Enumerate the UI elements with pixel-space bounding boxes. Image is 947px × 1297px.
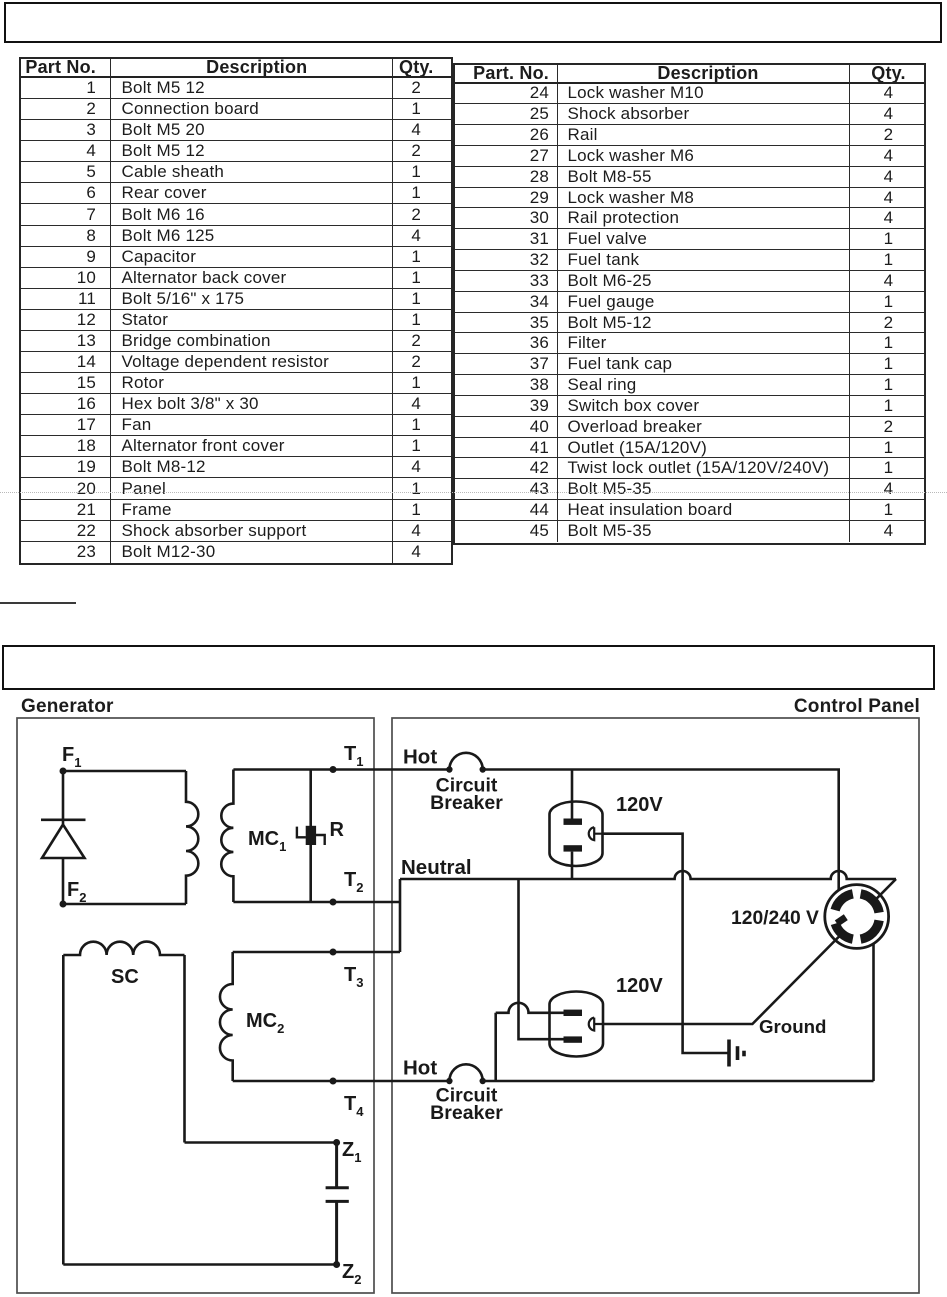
wire T2 bottom of MC1 [233,901,400,904]
twist-lock outlet J1 ground slot mark [837,917,846,923]
label Generator [21,696,114,718]
neutral bus with hops over two verticals [400,871,896,879]
svg-text:Hot: Hot [403,1057,437,1080]
outlet O1 ground notch [589,827,603,840]
svg-text:T1: T1 [344,743,363,769]
svg-text:Neutral: Neutral [401,856,472,879]
second header box [2,645,935,690]
varistor branch wire [309,770,312,903]
control panel enclosure box [392,718,919,1293]
svg-text:MC2: MC2 [246,1010,284,1036]
field winding (right side of F1-F2 loop) [186,771,198,904]
svg-text:Breaker: Breaker [430,792,503,814]
winding MC1 [221,770,233,903]
winding MC2 [220,952,233,1081]
parts table left [19,57,453,565]
outlet O2 ground notch [589,1018,603,1031]
node T4 [330,1078,337,1085]
varistor R body [306,826,316,845]
svg-text:R: R [330,819,345,841]
ground symbol G1 [727,1040,731,1067]
svg-text:F2: F2 [67,879,86,905]
twist-lock outlet J1 face (hides diagonal inside) [837,897,876,936]
svg-text:Breaker: Breaker [430,1102,503,1124]
generator enclosure box [17,718,374,1293]
wire SC bottom to Z2 [63,1263,336,1266]
wire hot drop to outlet O1 [571,770,574,819]
node F1 [60,768,67,775]
svg-text:MC1: MC1 [248,828,286,854]
wire O2 hot feed with hop [496,1003,564,1081]
node T2 [330,899,337,906]
svg-text:Z1: Z1 [342,1139,361,1165]
wire Hot2 bus [483,1080,874,1083]
wire O1 neutral drop [571,852,574,879]
scan artifact: short rule at left margin [0,602,76,604]
svg-text:120V: 120V [616,975,663,997]
wire neutral drop to outlet O2 [519,879,564,1039]
capacitor C1 [326,1143,349,1265]
neutral riser joining T2/T3 [399,879,402,952]
circuit breaker CB1 arc [449,753,482,770]
wire O1 ground pin down to ground bus [603,834,730,1053]
varistor R stepped strike [297,827,325,845]
wire T1 to circuit breaker (Hot) [233,768,449,771]
wire O2 ground to twist-lock ground slot [603,879,897,1024]
top header box [4,2,942,43]
wire T4 to circuit breaker CB2 (Hot) [233,1080,450,1083]
scan artifact: faint dotted line [0,492,947,493]
svg-text:120V: 120V [616,794,663,816]
twist-lock outlet J1 outer ring [825,885,889,949]
svg-text:Hot: Hot [403,746,437,769]
svg-text:T4: T4 [344,1093,364,1119]
diode D1 [41,771,86,904]
svg-text:F1: F1 [62,744,81,770]
svg-text:T2: T2 [344,869,363,895]
svg-text:T3: T3 [344,964,363,990]
label Control Panel [794,696,920,718]
wire Hot bus to twist-lock top [483,770,839,890]
node Z1 [333,1139,340,1146]
circuit breaker CB2 arc [449,1064,482,1081]
wire T3 top of MC2 [233,951,400,954]
wire F1 top [63,770,186,773]
outlet O1 slot blades [564,819,583,825]
outlet O2 body [550,992,604,1057]
circuit breaker CB2 terminal dots [446,1078,452,1084]
circuit breaker CB1 terminal dots [446,766,452,772]
node T3 [330,949,337,956]
wire SC right leg [183,955,186,1143]
winding SC (horizontal) [63,942,184,955]
svg-text:120/240 V: 120/240 V [731,908,819,929]
wire SC left leg [62,955,65,1265]
node F2 [60,901,67,908]
node T1 [330,766,337,773]
svg-text:SC: SC [111,966,139,988]
outlet O2 slot blades [564,1010,583,1016]
outlet O1 body [550,802,603,866]
twist-lock outlet J1 contact arcs [861,920,880,939]
wire to Z1 [185,1141,337,1144]
svg-text:Z2: Z2 [342,1261,361,1287]
wiring schematic [0,690,947,1297]
wire F2 bottom [63,903,186,906]
parts table right [453,63,926,545]
wire twist-lock bottom to Hot2 [872,944,875,1081]
node Z2 [333,1261,340,1268]
svg-text:Ground: Ground [759,1016,826,1037]
